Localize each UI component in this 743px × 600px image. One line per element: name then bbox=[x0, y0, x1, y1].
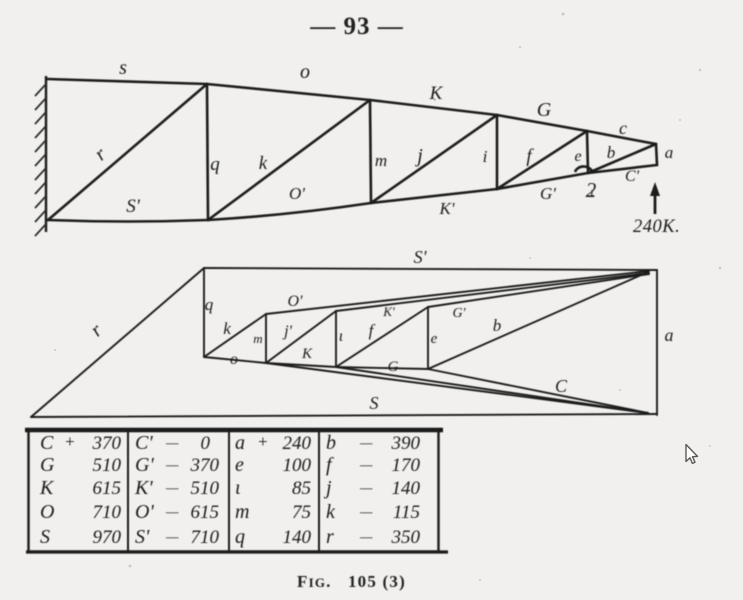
vertical e bbox=[587, 131, 588, 173]
table frame bbox=[29, 430, 439, 552]
vertical a tip bbox=[656, 144, 657, 165]
force diagram line b bbox=[428, 272, 648, 369]
svg-text:S: S bbox=[40, 526, 50, 548]
svg-text:615: 615 bbox=[191, 502, 220, 523]
svg-text:—: — bbox=[359, 530, 373, 545]
table row 4 col 2 : O' - 615 bbox=[135, 501, 219, 523]
svg-text:—: — bbox=[165, 436, 179, 451]
svg-text:m: m bbox=[375, 151, 387, 170]
table row 1 col 3 : a + 240 bbox=[235, 432, 312, 454]
svg-text:K': K' bbox=[134, 477, 153, 499]
svg-text:O': O' bbox=[288, 293, 304, 310]
diagonal j bbox=[371, 115, 497, 203]
svg-text:K: K bbox=[429, 83, 444, 104]
force diagram line K' bbox=[336, 273, 649, 311]
svg-text:b: b bbox=[607, 143, 616, 162]
force diagram line S bbox=[31, 414, 657, 417]
svg-text:—: — bbox=[165, 505, 179, 520]
force diagram line k bbox=[204, 314, 266, 357]
svg-text:S: S bbox=[370, 393, 379, 413]
svg-text:85: 85 bbox=[292, 478, 311, 499]
wall hatching bbox=[35, 84, 46, 236]
load arrow 240K bbox=[633, 182, 680, 237]
svg-text:o: o bbox=[300, 61, 310, 83]
svg-text:e: e bbox=[574, 148, 581, 165]
svg-text:C: C bbox=[555, 376, 568, 396]
svg-text:710: 710 bbox=[191, 527, 220, 548]
svg-text:— 93 —: — 93 — bbox=[309, 13, 404, 40]
force diagram vertical iota bbox=[335, 311, 337, 367]
svg-text:a: a bbox=[665, 143, 674, 162]
svg-text:+: + bbox=[64, 432, 75, 451]
table row 2 col 4 : f - 170 bbox=[326, 454, 421, 476]
top chord s bbox=[47, 79, 207, 84]
bottom chord S' bbox=[48, 220, 208, 222]
svg-text:q: q bbox=[210, 154, 220, 175]
svg-text:240: 240 bbox=[283, 433, 312, 454]
top chord G bbox=[497, 115, 587, 131]
svg-text:S': S' bbox=[135, 526, 150, 548]
svg-text:a: a bbox=[665, 325, 674, 345]
table column line 2 bbox=[228, 431, 230, 551]
force diagram line o bbox=[204, 357, 266, 363]
svg-text:G: G bbox=[537, 99, 552, 121]
diagonal b bbox=[588, 144, 656, 173]
svg-text:—: — bbox=[165, 458, 179, 473]
force diagram line G' bbox=[428, 274, 649, 307]
svg-text:q: q bbox=[205, 295, 214, 314]
svg-text:ι: ι bbox=[235, 477, 241, 499]
svg-text:+: + bbox=[257, 432, 268, 451]
svg-text:615: 615 bbox=[93, 478, 122, 499]
svg-text:—: — bbox=[359, 458, 373, 473]
force diagram sliver from iota bbox=[336, 367, 648, 413]
svg-text:G: G bbox=[388, 359, 399, 375]
bottom chord O' bbox=[208, 203, 371, 220]
bottom chord C' bbox=[588, 165, 657, 173]
bottom chord G' bbox=[497, 173, 588, 189]
svg-text:—: — bbox=[359, 481, 373, 496]
svg-text:K: K bbox=[301, 346, 313, 362]
svg-text:370: 370 bbox=[92, 433, 122, 454]
svg-text:b: b bbox=[326, 432, 336, 454]
svg-text:e: e bbox=[235, 454, 244, 476]
table column line 3 bbox=[318, 431, 320, 551]
svg-text:—: — bbox=[359, 505, 373, 520]
top chord K bbox=[370, 100, 497, 115]
svg-text:970: 970 bbox=[93, 527, 122, 548]
top chord o bbox=[207, 84, 370, 100]
force diagram vertical m bbox=[265, 314, 267, 363]
svg-text:140: 140 bbox=[283, 527, 312, 548]
table row 3 col 2 : K' - 510 bbox=[134, 477, 220, 499]
table row 5 col 4 : r - 350 bbox=[326, 526, 421, 548]
table row 3 col 4 : j - 140 bbox=[323, 477, 421, 499]
svg-text:75: 75 bbox=[292, 502, 311, 523]
svg-text:G': G' bbox=[135, 454, 154, 476]
svg-text:O': O' bbox=[135, 501, 154, 523]
bottom chord K' bbox=[371, 189, 497, 203]
table row 1 col 4 : b - 390 bbox=[326, 432, 421, 454]
table row 5 col 1 : S 970 bbox=[40, 526, 122, 548]
svg-text:0: 0 bbox=[201, 433, 211, 454]
svg-text:100: 100 bbox=[283, 455, 312, 476]
svg-text:G': G' bbox=[452, 306, 466, 321]
table row 4 col 1 : O 710 bbox=[40, 501, 122, 523]
svg-text:170: 170 bbox=[392, 455, 421, 476]
svg-text:K': K' bbox=[382, 304, 395, 319]
force diagram line j' bbox=[266, 311, 336, 363]
svg-text:k: k bbox=[223, 319, 231, 338]
svg-text:O: O bbox=[40, 501, 54, 523]
force diagram line O' bbox=[266, 271, 649, 314]
svg-text:—: — bbox=[165, 530, 179, 545]
diagonal f bbox=[497, 131, 587, 189]
force diagram line K bbox=[266, 363, 336, 367]
svg-text:s: s bbox=[119, 57, 127, 79]
mouse cursor bbox=[686, 445, 698, 464]
svg-text:ι: ι bbox=[339, 328, 343, 345]
svg-text:710: 710 bbox=[93, 502, 122, 523]
table row 4 col 3 : m 75 bbox=[235, 501, 311, 523]
table row 1 col 2 : C' - 0 bbox=[135, 432, 211, 454]
svg-text:k: k bbox=[326, 501, 336, 523]
svg-text:510: 510 bbox=[93, 455, 122, 476]
svg-text:370: 370 bbox=[190, 455, 220, 476]
force diagram vertical q bbox=[203, 268, 205, 357]
svg-text:a: a bbox=[235, 432, 245, 454]
roller hump at bottom node e bbox=[575, 166, 593, 172]
wall support line bbox=[45, 76, 47, 232]
svg-text:i: i bbox=[483, 147, 488, 166]
force diagram vertical e bbox=[427, 307, 429, 369]
svg-text:C': C' bbox=[135, 432, 153, 454]
force diagram line C bbox=[428, 369, 648, 413]
svg-text:O': O' bbox=[289, 184, 305, 203]
svg-text:ι: ι bbox=[590, 184, 594, 199]
table column line 1 bbox=[127, 431, 129, 551]
svg-text:C: C bbox=[40, 432, 54, 454]
svg-text:j': j' bbox=[282, 323, 292, 340]
svg-text:e: e bbox=[431, 331, 438, 347]
svg-text:G: G bbox=[40, 454, 55, 476]
table row 5 col 2 : S' - 710 bbox=[135, 526, 220, 548]
svg-text:FIG. 105 (3): FIG. 105 (3) bbox=[297, 572, 406, 591]
svg-text:C': C' bbox=[625, 168, 640, 185]
table row 2 col 2 : G' - 370 bbox=[135, 454, 220, 476]
svg-text:K': K' bbox=[439, 199, 455, 218]
svg-text:k: k bbox=[259, 153, 268, 174]
table row 2 col 3 : e 100 bbox=[235, 454, 312, 476]
force diagram line f bbox=[336, 307, 428, 367]
svg-text:390: 390 bbox=[391, 433, 421, 454]
svg-text:350: 350 bbox=[391, 527, 421, 548]
table row 4 col 4 : k - 115 bbox=[326, 501, 420, 523]
svg-text:S': S' bbox=[126, 196, 141, 217]
table row 5 col 3 : q 140 bbox=[235, 526, 312, 548]
force diagram line r bbox=[31, 268, 204, 417]
svg-text:140: 140 bbox=[392, 478, 421, 499]
vertical i bbox=[496, 115, 499, 189]
table row 2 col 1 : G 510 bbox=[40, 454, 122, 476]
table row 3 col 3 : iota 85 bbox=[235, 477, 311, 499]
force diagram vertical a bbox=[656, 270, 658, 415]
force diagram line S' bbox=[204, 268, 657, 270]
diagonal r bbox=[48, 84, 207, 220]
svg-text:240K.: 240K. bbox=[633, 217, 680, 237]
svg-text:115: 115 bbox=[393, 502, 420, 523]
svg-text:S': S' bbox=[414, 247, 428, 267]
svg-text:c: c bbox=[619, 118, 627, 138]
svg-text:b: b bbox=[493, 316, 502, 335]
svg-text:—: — bbox=[359, 436, 373, 451]
vertical m bbox=[370, 100, 371, 203]
svg-text:r: r bbox=[326, 526, 334, 548]
top chord C bbox=[587, 131, 656, 144]
table row 3 col 1 : K 615 bbox=[39, 477, 121, 499]
table row 1 col 1 : C + 370 bbox=[40, 432, 122, 454]
svg-text:m: m bbox=[235, 501, 249, 523]
svg-text:o: o bbox=[230, 351, 238, 368]
heavy rule above table bbox=[25, 428, 443, 433]
svg-text:510: 510 bbox=[191, 478, 220, 499]
force diagram sliver from m bbox=[266, 363, 648, 413]
force diagram line G bbox=[336, 367, 428, 369]
svg-text:q: q bbox=[235, 526, 245, 548]
diagonal k bbox=[208, 100, 370, 220]
svg-text:—: — bbox=[165, 481, 179, 496]
svg-text:m: m bbox=[253, 331, 262, 346]
svg-text:G': G' bbox=[540, 184, 556, 203]
vertical q bbox=[207, 84, 208, 220]
svg-text:K: K bbox=[39, 477, 55, 499]
table bottom heavy edge bbox=[26, 550, 448, 553]
